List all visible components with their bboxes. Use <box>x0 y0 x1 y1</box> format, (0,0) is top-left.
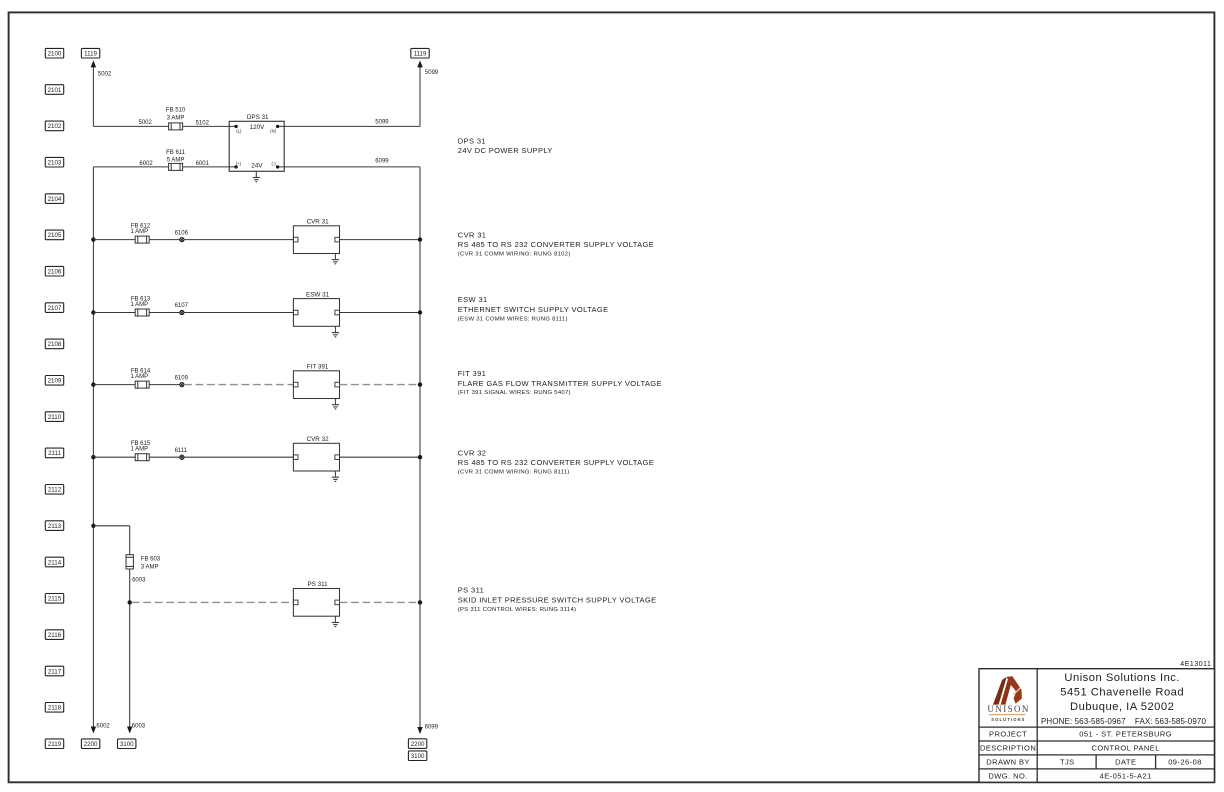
wire from fuse to terminal 6107 <box>149 312 180 314</box>
svg-text:DATE: DATE <box>1115 758 1136 767</box>
svg-text:2103: 2103 <box>48 160 62 167</box>
svg-text:2106: 2106 <box>48 269 62 276</box>
junction branch rung 2115 <box>128 600 132 604</box>
svg-text:2109: 2109 <box>48 378 62 385</box>
svg-text:CVR 31: CVR 31 <box>458 230 487 239</box>
svg-text:2114: 2114 <box>48 559 62 566</box>
svg-text:RS 485 TO RS 232 CONVERTER SUP: RS 485 TO RS 232 CONVERTER SUPPLY VOLTAG… <box>458 458 654 467</box>
svg-text:SKID INLET PRESSURE SWITCH SUP: SKID INLET PRESSURE SWITCH SUPPLY VOLTAG… <box>458 595 657 604</box>
node rung number 2107 <box>45 303 63 313</box>
ground (FIT 391) <box>332 399 339 409</box>
wire 6003 bottom arrow <box>127 727 132 734</box>
svg-text:Unison Solutions Inc.: Unison Solutions Inc. <box>1064 672 1180 684</box>
wire 5099 riser to 1119 <box>417 60 422 126</box>
ground (DPS 31) <box>253 171 260 181</box>
svg-text:2112: 2112 <box>48 487 62 494</box>
svg-text:Dubuque, IA 52002: Dubuque, IA 52002 <box>1070 701 1174 713</box>
label FB 612 1 AMP <box>130 223 150 235</box>
wire 6003 branch <box>129 569 131 727</box>
svg-text:5 AMP: 5 AMP <box>167 157 185 163</box>
svg-text:6002: 6002 <box>139 161 153 167</box>
junction left bus rung <box>91 455 95 459</box>
wire 6106 to CVR 31 <box>184 239 293 241</box>
node rung number 2101 <box>45 85 63 95</box>
svg-text:TJS: TJS <box>1060 758 1075 767</box>
svg-text:CVR 32: CVR 32 <box>458 448 487 457</box>
wire rung from bus to fuse <box>93 312 135 314</box>
label DPS 31 description <box>458 137 553 155</box>
svg-text:DRAWN BY: DRAWN BY <box>986 758 1030 767</box>
component CVR 32 <box>293 436 339 471</box>
title block frame <box>979 669 1214 783</box>
ground (CVR 31) <box>332 253 339 263</box>
svg-text:(CVR 31 COMM WIRING: RUNG 8111: (CVR 31 COMM WIRING: RUNG 8111) <box>458 470 570 476</box>
svg-text:1 AMP: 1 AMP <box>130 302 148 308</box>
svg-text:2200: 2200 <box>84 741 98 748</box>
node rung number 2111 <box>45 448 63 458</box>
svg-text:(ESW 31 COMM WIRES: RUNG 8111): (ESW 31 COMM WIRES: RUNG 8111) <box>458 317 568 323</box>
svg-text:PS 311: PS 311 <box>307 581 328 588</box>
label CVR 31 description <box>458 230 654 257</box>
svg-text:2113: 2113 <box>48 523 62 530</box>
svg-text:2117: 2117 <box>48 668 62 675</box>
svg-text:120V: 120V <box>250 124 266 131</box>
svg-text:1119: 1119 <box>84 51 97 58</box>
junction left bus rung <box>91 237 95 241</box>
svg-text:6002: 6002 <box>96 723 110 729</box>
fuse FB 615 <box>135 454 149 461</box>
node 2200 (bottom left) <box>81 739 99 749</box>
wire 6001 <box>183 166 237 168</box>
svg-text:PHONE: 563-585-0967 FAX: 56: PHONE: 563-585-0967 FAX: 563-585-0970 <box>1041 717 1206 726</box>
svg-text:FB 611: FB 611 <box>166 150 186 156</box>
svg-text:2111: 2111 <box>48 450 61 457</box>
ground (PS 311) <box>332 616 339 626</box>
node rung number 2102 <box>45 121 63 131</box>
node rung number 2114 <box>45 557 63 567</box>
svg-text:6111: 6111 <box>175 448 188 454</box>
svg-text:2108: 2108 <box>48 341 62 348</box>
svg-text:4E-051-5-A21: 4E-051-5-A21 <box>1100 771 1152 780</box>
node rung number 2116 <box>45 630 63 640</box>
ground (CVR 32) <box>332 471 339 481</box>
wire rung from bus to fuse <box>93 239 135 241</box>
label FB 611 5 AMP <box>166 150 186 164</box>
wire 6099 bottom arrow <box>417 727 422 734</box>
svg-text:3 AMP: 3 AMP <box>141 564 159 570</box>
node 1119 (top left) <box>81 48 99 58</box>
wire rung from bus to fuse <box>93 384 135 386</box>
svg-text:4E13011: 4E13011 <box>1180 659 1211 668</box>
svg-text:2110: 2110 <box>48 414 62 421</box>
fuse FB 612 <box>135 236 149 243</box>
label FB 614 1 AMP <box>130 368 150 380</box>
wire from fuse to terminal 6109 <box>149 384 180 386</box>
svg-text:2116: 2116 <box>48 632 62 639</box>
junction left bus rung <box>91 382 95 386</box>
wire 6099 right bus <box>419 167 421 728</box>
wire PS 311 to right bus (dashed) <box>340 601 421 603</box>
svg-text:2100: 2100 <box>48 51 62 58</box>
svg-text:5099: 5099 <box>375 119 389 125</box>
label FB 615 1 AMP <box>130 441 150 453</box>
svg-text:DPS 31: DPS 31 <box>247 114 269 121</box>
junction left bus rung <box>91 310 95 314</box>
svg-text:SOLUTIONS: SOLUTIONS <box>991 717 1025 722</box>
svg-text:2200: 2200 <box>411 741 425 748</box>
node rung number 2100 <box>45 48 63 58</box>
svg-text:1 AMP: 1 AMP <box>130 447 148 453</box>
node 1119 (top right) <box>411 48 429 58</box>
svg-text:ESW 31: ESW 31 <box>458 295 488 304</box>
svg-text:6003: 6003 <box>132 723 146 729</box>
fuse FB 614 <box>135 381 149 388</box>
svg-text:FLARE GAS FLOW TRANSMITTER SUP: FLARE GAS FLOW TRANSMITTER SUPPLY VOLTAG… <box>458 379 662 388</box>
label FB 613 1 AMP <box>130 296 150 308</box>
wire 5002 rung 2102 <box>93 125 168 127</box>
svg-text:2119: 2119 <box>48 741 62 748</box>
svg-text:(L): (L) <box>236 128 242 133</box>
wire CVR 31 to right bus <box>340 239 421 241</box>
wire from fuse to terminal 6106 <box>149 239 180 241</box>
node rung number 2104 <box>45 194 63 204</box>
svg-text:3100: 3100 <box>120 741 134 748</box>
fuse FB 510 <box>169 123 183 130</box>
wire 6002 rung 2103 <box>93 166 168 168</box>
fuse FB 611 <box>169 163 183 170</box>
node rung number 2109 <box>45 376 63 386</box>
wire 5102 <box>183 125 237 127</box>
svg-text:FIT 391: FIT 391 <box>458 369 486 378</box>
node 3100 (bottom right) <box>408 751 426 761</box>
junction right bus rung <box>418 382 422 386</box>
svg-text:CVR 32: CVR 32 <box>307 436 330 443</box>
svg-text:5002: 5002 <box>98 71 112 77</box>
terminal 6111 <box>180 455 184 459</box>
svg-text:(-): (-) <box>272 161 277 166</box>
junction right bus rung <box>418 455 422 459</box>
svg-text:5002: 5002 <box>139 120 153 126</box>
node rung number 2106 <box>45 266 63 276</box>
node rung number 2112 <box>45 485 63 495</box>
wire 6099 rung 2103 <box>278 166 420 168</box>
node rung number 2110 <box>45 412 63 422</box>
svg-text:5102: 5102 <box>196 120 210 126</box>
svg-text:2115: 2115 <box>48 596 62 603</box>
svg-text:2105: 2105 <box>48 232 62 239</box>
junction right bus rung <box>418 310 422 314</box>
wire rung from bus to fuse <box>93 456 135 458</box>
junction right bus rung <box>418 237 422 241</box>
logo Unison Solutions <box>987 676 1029 722</box>
node rung number 2108 <box>45 339 63 349</box>
terminal 6106 <box>180 238 184 242</box>
label PS 311 description <box>458 586 657 614</box>
node 3100 (bottom left) <box>118 739 136 749</box>
svg-text:09-26-08: 09-26-08 <box>1168 758 1202 767</box>
title block fields <box>980 730 1202 781</box>
svg-text:6003: 6003 <box>132 578 146 584</box>
fuse FB 603 <box>126 555 133 569</box>
label CVR 32 description <box>458 448 654 475</box>
label company address <box>1041 672 1206 726</box>
wire 6107 to ESW 31 <box>184 312 293 314</box>
svg-text:CONTROL PANEL: CONTROL PANEL <box>1092 744 1160 753</box>
wire 6109 dashed to FIT 391 <box>184 384 293 386</box>
fuse FB 613 <box>135 309 149 316</box>
component FIT 391 <box>293 363 339 398</box>
wire FIT 391 to right bus (dashed) <box>340 384 421 386</box>
svg-text:DWG. NO.: DWG. NO. <box>988 771 1027 780</box>
junction right bus rung 2115 <box>418 600 422 604</box>
svg-text:051 - ST. PETERSBURG: 051 - ST. PETERSBURG <box>1079 730 1172 739</box>
svg-text:2107: 2107 <box>48 305 62 312</box>
svg-text:2101: 2101 <box>48 87 62 94</box>
wire 6111 to CVR 32 <box>184 456 293 458</box>
label FB 603 3 AMP <box>141 557 161 571</box>
wire 5002 riser to 1119 <box>91 60 96 126</box>
component PS 311 <box>293 581 339 616</box>
svg-text:(CVR 31 COMM WIRING: RUNG 8102: (CVR 31 COMM WIRING: RUNG 8102) <box>458 252 571 258</box>
wire from fuse to terminal 6111 <box>149 456 180 458</box>
svg-text:PS 311: PS 311 <box>458 586 484 595</box>
svg-text:DESCRIPTION: DESCRIPTION <box>980 744 1036 753</box>
node rung number 2118 <box>45 703 63 713</box>
svg-text:PROJECT: PROJECT <box>989 730 1027 739</box>
label FIT 391 description <box>458 369 662 396</box>
node rung number 2115 <box>45 594 63 604</box>
wire 6003 dashed to PS 311 <box>132 601 294 603</box>
svg-text:6107: 6107 <box>175 303 189 309</box>
label ESW 31 description <box>458 295 609 323</box>
svg-text:ESW 31: ESW 31 <box>306 291 330 298</box>
svg-text:6109: 6109 <box>175 375 189 381</box>
svg-text:1119: 1119 <box>414 51 427 58</box>
svg-text:24V DC POWER SUPPLY: 24V DC POWER SUPPLY <box>458 146 553 155</box>
svg-text:CVR 31: CVR 31 <box>307 218 330 225</box>
svg-text:(N): (N) <box>270 128 276 133</box>
svg-text:FB 603: FB 603 <box>141 557 161 563</box>
power supply DPS 31 <box>229 114 284 171</box>
node 2200 (bottom right) <box>408 739 426 749</box>
terminal 6109 <box>180 383 184 387</box>
ground (ESW 31) <box>332 326 339 336</box>
svg-text:1 AMP: 1 AMP <box>130 374 148 380</box>
svg-text:6099: 6099 <box>375 158 389 164</box>
svg-text:5099: 5099 <box>425 70 439 76</box>
node rung number 2105 <box>45 230 63 240</box>
svg-text:2104: 2104 <box>48 196 62 203</box>
svg-text:ETHERNET SWITCH SUPPLY VOLTAGE: ETHERNET SWITCH SUPPLY VOLTAGE <box>458 305 609 314</box>
svg-text:3 AMP: 3 AMP <box>167 115 185 121</box>
component CVR 31 <box>293 218 339 253</box>
node rung number 2117 <box>45 666 63 676</box>
svg-text:(+): (+) <box>236 161 242 166</box>
svg-text:UNISON: UNISON <box>987 704 1029 714</box>
label FB 510 3 AMP <box>166 108 186 122</box>
svg-text:24V: 24V <box>251 162 263 169</box>
junction left bus rung 2113 <box>91 524 95 528</box>
wire branch rung 2113 <box>93 526 129 555</box>
wire 6002 left bus <box>92 167 94 727</box>
svg-text:6099: 6099 <box>425 724 439 730</box>
svg-text:1 AMP: 1 AMP <box>130 229 148 235</box>
svg-text:5451 Chavenelle Road: 5451 Chavenelle Road <box>1060 687 1184 699</box>
svg-text:2118: 2118 <box>48 705 62 712</box>
svg-text:6106: 6106 <box>175 230 189 236</box>
node rung number 2119 <box>45 739 63 749</box>
wire CVR 32 to right bus <box>340 456 421 458</box>
svg-text:6001: 6001 <box>196 161 210 167</box>
wire 6002 bottom arrow <box>91 727 96 734</box>
svg-text:(PS 311 CONTROL WIRES: RUNG 31: (PS 311 CONTROL WIRES: RUNG 3114) <box>458 607 576 613</box>
svg-text:(FIT 391 SIGNAL WIRES: RUNG 54: (FIT 391 SIGNAL WIRES: RUNG 5407) <box>458 390 571 396</box>
wire 5099 rung 2102 <box>278 125 420 127</box>
svg-text:FB 510: FB 510 <box>166 108 186 114</box>
terminal 6107 <box>180 310 184 314</box>
svg-text:DPS 31: DPS 31 <box>458 137 486 146</box>
svg-text:3100: 3100 <box>411 753 425 760</box>
svg-text:2102: 2102 <box>48 123 62 130</box>
component ESW 31 <box>293 291 339 326</box>
svg-text:FIT 391: FIT 391 <box>307 363 329 370</box>
node rung number 2113 <box>45 521 63 531</box>
wire ESW 31 to right bus <box>340 312 421 314</box>
node rung number 2103 <box>45 157 63 167</box>
svg-text:RS 485 TO RS 232 CONVERTER SUP: RS 485 TO RS 232 CONVERTER SUPPLY VOLTAG… <box>458 240 654 249</box>
